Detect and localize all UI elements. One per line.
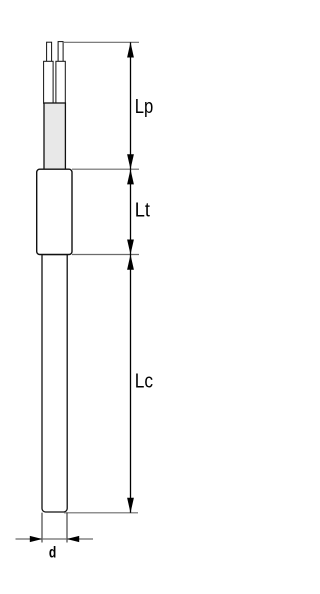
d dimension line xyxy=(16,538,94,540)
svg-text:Lp: Lp xyxy=(135,96,154,118)
extension line tube bottom xyxy=(64,512,138,514)
dimension line Lc xyxy=(130,255,132,513)
svg-text:d: d xyxy=(49,545,56,562)
arrow right toward d left xyxy=(30,536,43,542)
arrow up at Lp top xyxy=(127,42,134,57)
transition body xyxy=(37,169,72,254)
extension line body top xyxy=(72,168,139,170)
d extension line right xyxy=(66,513,68,543)
arrow up at Lc top xyxy=(127,255,134,270)
insulation sleeve (gray) xyxy=(44,103,65,169)
lead wire left tip xyxy=(47,42,52,62)
arrow up at Lt top xyxy=(127,169,134,184)
arrow down at Lc bottom xyxy=(127,498,134,513)
lead wire left lower section xyxy=(44,61,54,103)
probe tube (Lc section) xyxy=(42,255,67,513)
svg-text:Lc: Lc xyxy=(135,371,153,393)
dimension line Lt xyxy=(130,169,132,254)
arrow left toward d right xyxy=(67,536,80,542)
d extension line left xyxy=(41,513,43,543)
arrow down at Lt bottom xyxy=(127,240,134,255)
lead wire right lower section xyxy=(56,61,65,103)
extension line body bottom xyxy=(72,254,139,256)
lead wire right tip xyxy=(58,42,63,62)
arrow down at Lp bottom xyxy=(127,154,134,169)
dimension line Lp xyxy=(130,42,132,169)
svg-text:Lt: Lt xyxy=(135,200,151,222)
extension line top (lead tip level) xyxy=(63,41,139,43)
